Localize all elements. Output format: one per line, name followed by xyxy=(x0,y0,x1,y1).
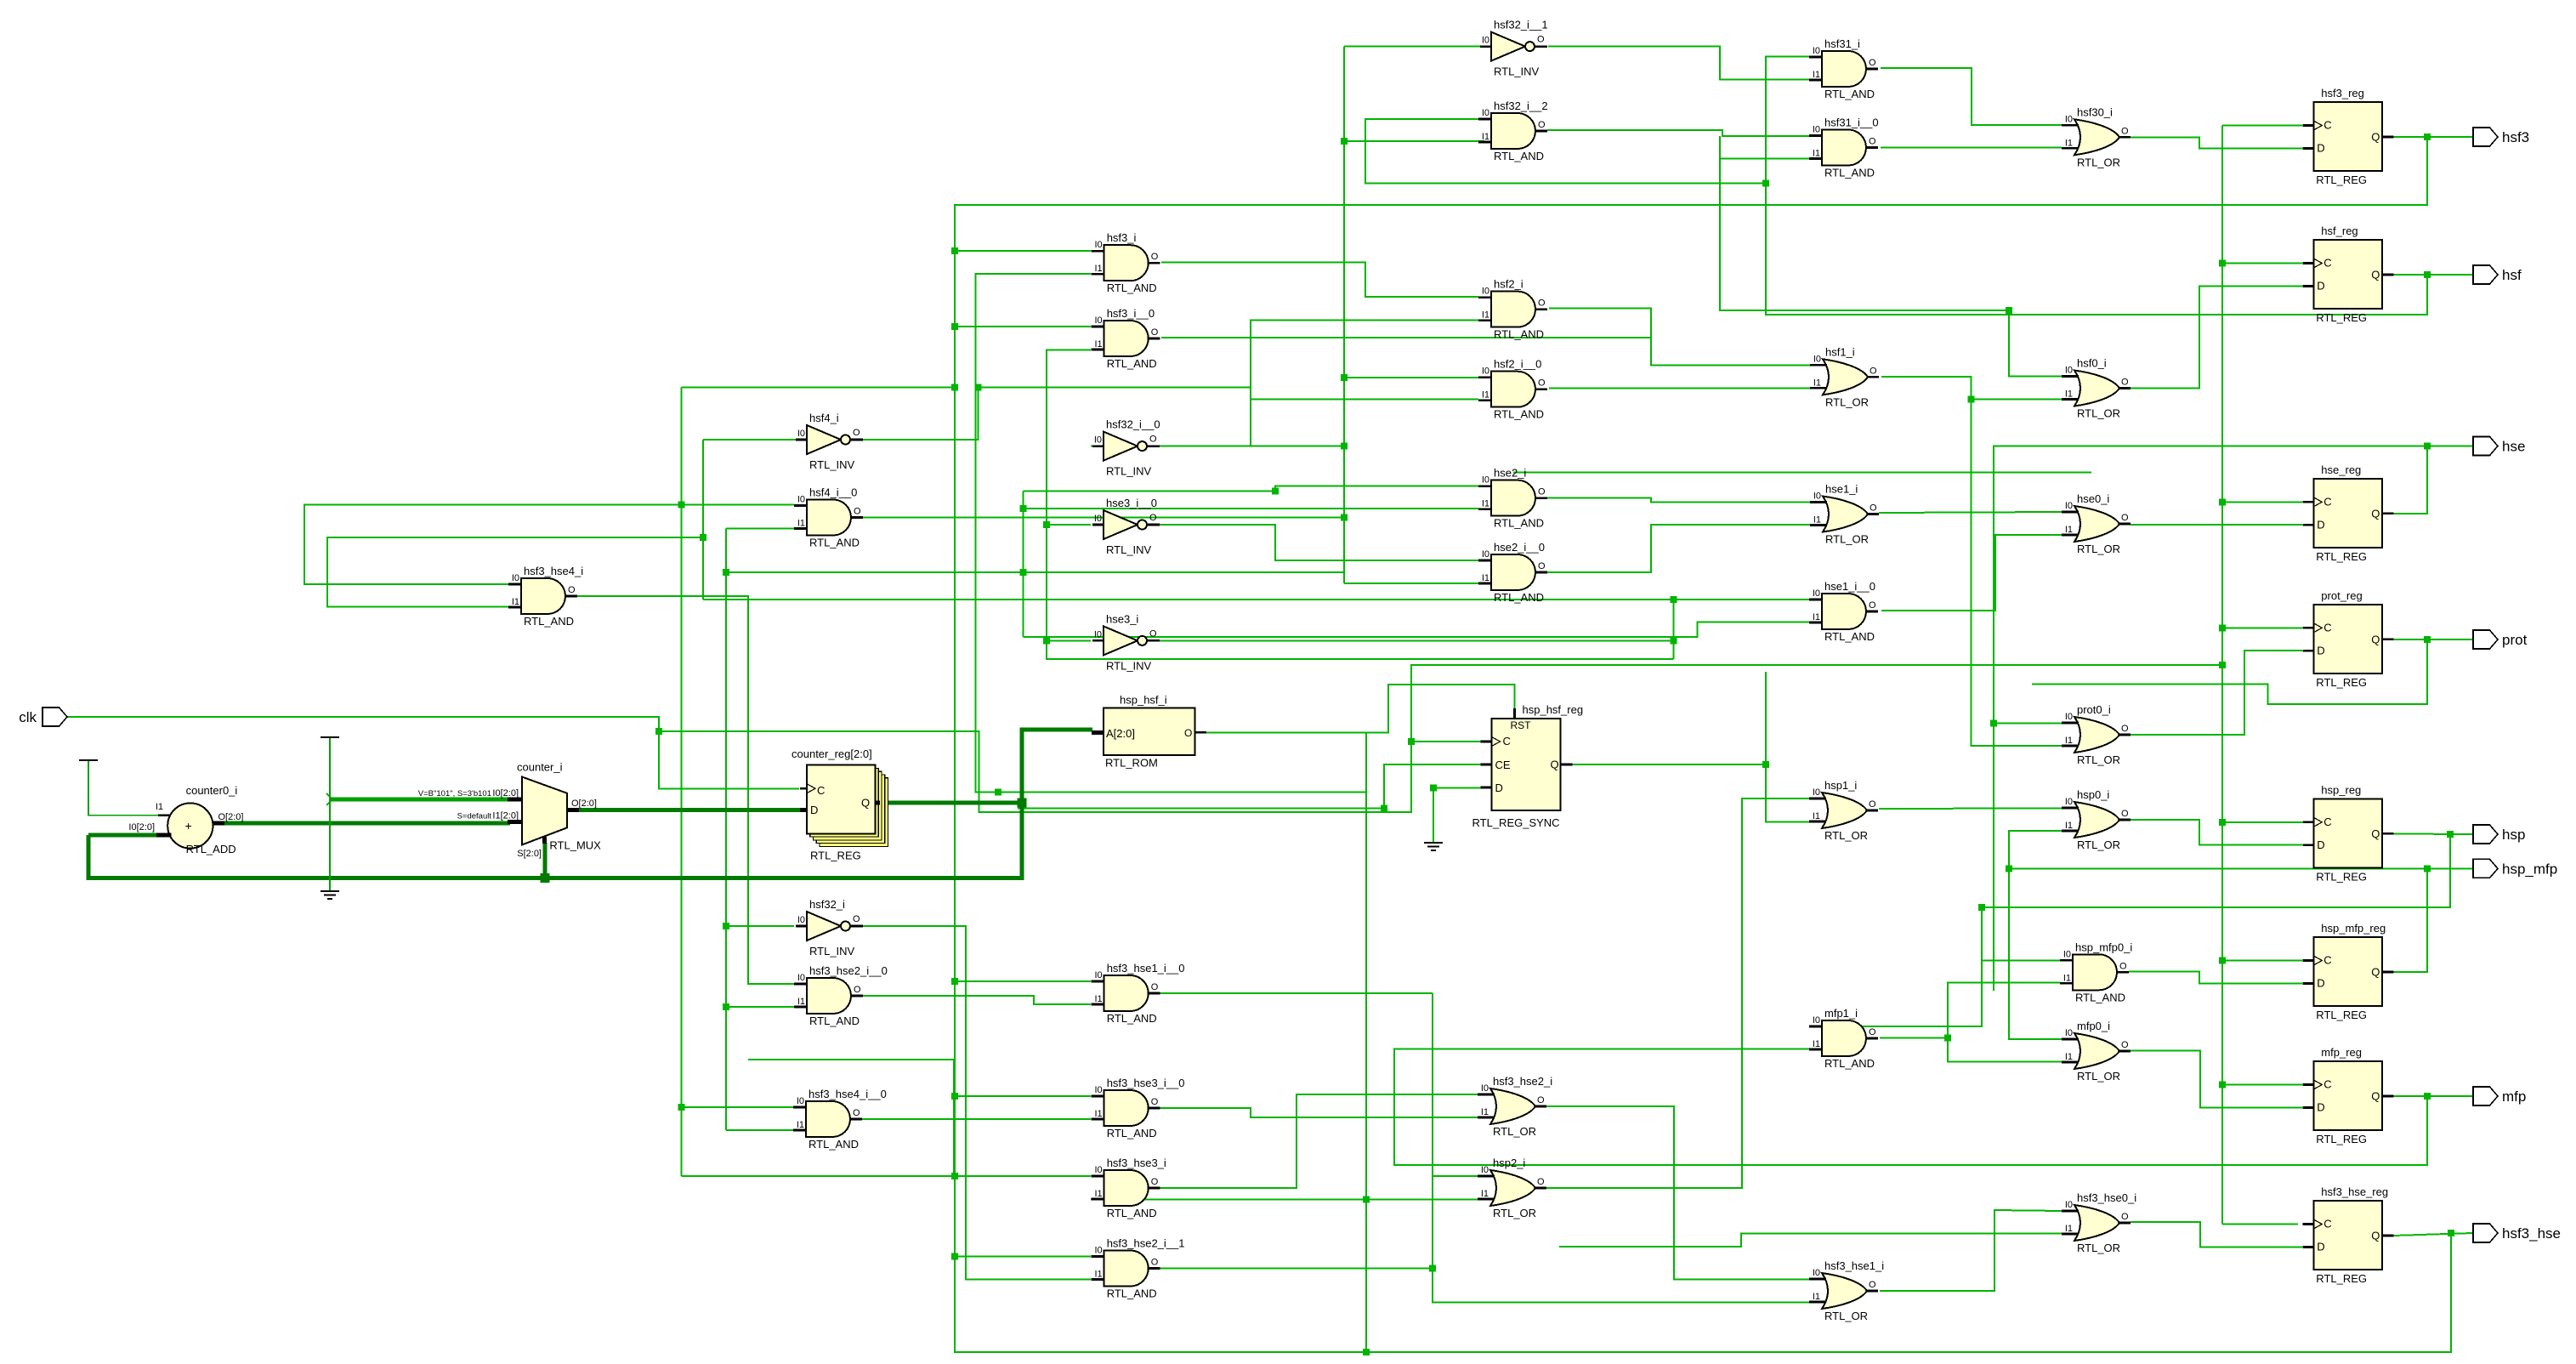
wire hse2 left vertical xyxy=(1023,491,1024,637)
svg-text:I0: I0 xyxy=(1813,125,1820,135)
svg-text:O: O xyxy=(1870,503,1877,514)
svg-text:counter_reg[2:0]: counter_reg[2:0] xyxy=(792,747,872,760)
svg-text:O: O xyxy=(1151,252,1159,262)
svg-text:D: D xyxy=(2317,838,2324,851)
svg-text:RTL_OR: RTL_OR xyxy=(2077,156,2120,168)
wire hsp0_i out to hsp_reg D xyxy=(2131,820,2302,845)
svg-text:CE: CE xyxy=(1495,759,1511,771)
or gate hse0_i xyxy=(2062,492,2131,555)
svg-text:Q: Q xyxy=(2371,507,2380,520)
svg-text:RTL_REG: RTL_REG xyxy=(2316,1272,2367,1285)
svg-text:O: O xyxy=(1869,600,1876,611)
wire hsp2_i I1 and hsf3_hse3_i I1 net xyxy=(1091,1199,1494,1201)
wire mfp0_i out to mfp_reg D xyxy=(2131,1051,2302,1108)
svg-text:RTL_AND: RTL_AND xyxy=(1494,591,1544,604)
svg-text:hsf3_hse3_i: hsf3_hse3_i xyxy=(1107,1157,1166,1169)
svg-text:hsf3_i: hsf3_i xyxy=(1107,231,1137,244)
wire hsf3 tap hsf3_hse3_i I0 xyxy=(955,1175,1091,1177)
svg-text:Q: Q xyxy=(2371,966,2380,979)
svg-text:hse0_i: hse0_i xyxy=(2077,492,2109,505)
wire hsf3_i out to hsf2_i I0 xyxy=(1161,262,1478,297)
svg-text:I0: I0 xyxy=(1095,1246,1103,1256)
svg-text:O: O xyxy=(2121,1040,2129,1050)
svg-text:I1: I1 xyxy=(2063,973,2071,983)
svg-text:RST: RST xyxy=(1511,719,1532,731)
svg-text:I0: I0 xyxy=(797,495,805,505)
wire hsf2_i__0 out to hsf1_i I1 xyxy=(1549,387,1810,389)
wire hsf2_i out xyxy=(1549,308,1651,338)
svg-text:RTL_REG: RTL_REG xyxy=(2316,676,2367,689)
port hsf3_hse xyxy=(2473,1224,2561,1242)
wire hsf3_hse0_i I1 feed xyxy=(1559,1234,2062,1247)
wire vertical x1607 xyxy=(1365,732,1367,1352)
wire hsf3 tap hsf3_i I0 xyxy=(955,250,1091,252)
svg-text:I1: I1 xyxy=(1482,132,1489,142)
svg-text:hsf4_i: hsf4_i xyxy=(809,412,839,424)
wire hsf3_reg Q to port hsf3 xyxy=(2393,136,2473,138)
svg-text:prot: prot xyxy=(2502,632,2528,648)
svg-text:O: O xyxy=(853,914,860,924)
bus mux O to counter_reg D xyxy=(579,808,800,812)
svg-text:I1: I1 xyxy=(1813,70,1820,80)
svg-text:O: O xyxy=(2121,126,2129,136)
svg-text:RTL_OR: RTL_OR xyxy=(2077,543,2120,555)
svg-text:RTL_OR: RTL_OR xyxy=(2077,838,2120,851)
svg-text:I1: I1 xyxy=(1095,339,1103,350)
svg-text:hsf3_i__0: hsf3_i__0 xyxy=(1107,307,1155,320)
svg-text:hsf32_i__1: hsf32_i__1 xyxy=(1494,19,1548,31)
svg-text:I0: I0 xyxy=(1482,108,1489,118)
svg-text:hsf4_i__0: hsf4_i__0 xyxy=(809,486,857,499)
svg-text:Q: Q xyxy=(2371,827,2380,840)
svg-text:I1: I1 xyxy=(1481,1189,1489,1199)
svg-text:RTL_INV: RTL_INV xyxy=(1106,543,1152,556)
svg-text:I1: I1 xyxy=(2065,138,2073,148)
svg-text:I0: I0 xyxy=(1095,315,1103,326)
or gate hsf3_hse0_i xyxy=(2062,1191,2136,1254)
svg-text:RTL_AND: RTL_AND xyxy=(1107,1287,1157,1300)
and gate hsf31_i__0 xyxy=(1809,117,1879,179)
svg-text:RTL_REG: RTL_REG xyxy=(2316,870,2367,883)
wire hsf3_hse3_i out to hsf3_hse2_i I0 xyxy=(1149,1094,1484,1188)
wire hsf4_i out to hsf2_i__0 I1 xyxy=(863,388,1478,440)
wire prot0_i out to prot_reg D xyxy=(2131,651,2302,735)
svg-text:hsf3_hse2_i__1: hsf3_hse2_i__1 xyxy=(1107,1237,1185,1250)
wire clk tap mfp_reg C xyxy=(2222,1084,2302,1086)
wire clk tap prot_reg C xyxy=(2222,628,2302,629)
svg-text:D: D xyxy=(1495,781,1503,794)
bus counter_reg Q xyxy=(880,801,1022,805)
svg-text:I1: I1 xyxy=(797,1120,804,1130)
svg-text:hsp_mfp_reg: hsp_mfp_reg xyxy=(2321,922,2386,935)
wire vertical B xyxy=(725,529,727,1131)
wire hsf3_hse3_i__0 out to hsf3_hse2_i I1 xyxy=(1149,1108,1484,1117)
and gate hse2_i__0 xyxy=(1478,541,1547,604)
svg-text:O: O xyxy=(568,585,576,595)
svg-text:O: O xyxy=(1538,487,1546,497)
svg-text:I0: I0 xyxy=(797,973,805,983)
wire hsf4_i I0 stub wire xyxy=(703,439,796,440)
svg-text:RTL_MUX: RTL_MUX xyxy=(549,838,601,851)
wire hsf3_hse1_i__0 out xyxy=(1149,992,1433,994)
svg-text:I1: I1 xyxy=(2065,736,2073,746)
port hsp_mfp xyxy=(2473,859,2557,878)
svg-text:RTL_REG: RTL_REG xyxy=(2316,1133,2367,1145)
svg-text:I0: I0 xyxy=(1481,1083,1489,1094)
bus mux S xyxy=(543,843,548,878)
wire hsp1_i out to hsp0_i I0 xyxy=(1879,807,2062,810)
ground symbol xyxy=(321,891,339,899)
svg-text:prot_reg: prot_reg xyxy=(2321,589,2362,602)
svg-text:C: C xyxy=(2324,119,2331,132)
svg-text:RTL_AND: RTL_AND xyxy=(809,537,860,549)
svg-text:RTL_AND: RTL_AND xyxy=(1494,408,1544,421)
svg-text:I0: I0 xyxy=(2065,501,2073,511)
wire hse2_i__0 I1 feed xyxy=(1344,583,1478,584)
svg-text:O: O xyxy=(1537,35,1545,45)
svg-text:I1: I1 xyxy=(1482,573,1489,583)
and gate hsf3_hse3_i__0 xyxy=(1092,1077,1185,1140)
svg-text:RTL_AND: RTL_AND xyxy=(1824,630,1875,643)
and gate hsf3_hse4_i xyxy=(508,565,583,628)
svg-text:I1: I1 xyxy=(1482,310,1489,321)
svg-text:RTL_OR: RTL_OR xyxy=(1825,533,1869,546)
svg-text:hsf31_i__0: hsf31_i__0 xyxy=(1824,117,1879,129)
port mfp xyxy=(2473,1087,2526,1105)
wire hsf32_i__2 out to hsf31_i__0 I0 xyxy=(1547,130,1812,136)
const tbar top xyxy=(321,736,339,738)
wire hsf0_i out to hsf_reg D xyxy=(2131,287,2302,389)
rom hsp_hsf_i xyxy=(1092,693,1206,769)
register hsp_mfp_reg xyxy=(2302,922,2393,1021)
svg-text:I1: I1 xyxy=(156,802,163,812)
svg-text:D: D xyxy=(2317,977,2324,990)
svg-text:RTL_INV: RTL_INV xyxy=(1494,65,1540,78)
svg-text:hse2_i__0: hse2_i__0 xyxy=(1494,541,1545,554)
svg-text:I0: I0 xyxy=(2065,1028,2073,1038)
svg-text:I1: I1 xyxy=(1813,515,1821,526)
svg-text:O: O xyxy=(1151,982,1159,992)
const1 tbar for adder I1 xyxy=(79,759,98,761)
svg-text:prot0_i: prot0_i xyxy=(2077,703,2111,716)
and gate hsf3_hse3_i xyxy=(1092,1157,1166,1219)
svg-text:I0[2:0]: I0[2:0] xyxy=(128,822,155,833)
register hsp_reg xyxy=(2302,783,2393,883)
svg-text:RTL_AND: RTL_AND xyxy=(1824,88,1875,100)
wire hsp_hsf ROM out to RST xyxy=(1206,685,1515,733)
svg-text:I1: I1 xyxy=(1481,1107,1489,1117)
svg-text:RTL_OR: RTL_OR xyxy=(1825,395,1869,408)
svg-text:I0: I0 xyxy=(797,429,805,439)
wire hsf2_i__0 I0 feed xyxy=(1344,377,1478,378)
svg-text:O: O xyxy=(1869,799,1876,810)
svg-text:O: O xyxy=(854,507,861,517)
svg-text:+: + xyxy=(185,819,192,833)
or gate hsf0_i xyxy=(2062,357,2131,420)
bus adder O to mux I1 xyxy=(224,821,510,826)
wire hsf3 tap hsf1_i area xyxy=(682,387,955,389)
svg-text:I1: I1 xyxy=(2065,1224,2073,1234)
wire hsf3_hse_reg Q to port hsf3_hse xyxy=(2393,1233,2473,1236)
wire prot_reg Q to port prot xyxy=(2393,639,2473,640)
svg-text:hsf3_hse_reg: hsf3_hse_reg xyxy=(2321,1185,2388,1198)
inverter hsf4_i xyxy=(796,412,863,471)
svg-text:O: O xyxy=(1869,137,1876,147)
and gate mfp1_i xyxy=(1809,1007,1878,1070)
svg-text:hsp_mfp0_i: hsp_mfp0_i xyxy=(2075,941,2132,953)
svg-text:I0: I0 xyxy=(1482,549,1489,560)
wire hse1_i__0 I1 feed xyxy=(1024,622,1811,637)
bus adder I0 stub wire xyxy=(88,833,158,838)
svg-text:Q: Q xyxy=(2371,131,2380,144)
svg-text:O: O xyxy=(2121,724,2129,734)
svg-text:O: O xyxy=(1151,1258,1159,1268)
svg-text:C: C xyxy=(2324,257,2331,270)
svg-text:RTL_REG: RTL_REG xyxy=(2316,311,2367,324)
wire hsf32 tap hsf32_i__2 I1 xyxy=(1344,140,1484,142)
or gate hsp1_i xyxy=(1809,779,1878,842)
svg-text:hsf3: hsf3 xyxy=(2502,129,2529,145)
const wire to mux I0 xyxy=(330,798,510,802)
inverter hsf32_i__1 xyxy=(1480,19,1548,78)
svg-text:O: O xyxy=(853,1108,860,1118)
or gate hsf30_i xyxy=(2062,105,2131,168)
svg-text:hsf: hsf xyxy=(2502,267,2522,283)
svg-text:RTL_AND: RTL_AND xyxy=(2075,991,2125,1003)
svg-text:hse2_i: hse2_i xyxy=(1494,467,1526,480)
svg-text:I0: I0 xyxy=(1813,787,1820,798)
wire hsp0_i I1 feed xyxy=(2009,831,2062,868)
svg-text:O: O xyxy=(1184,727,1192,739)
svg-text:hsf0_i: hsf0_i xyxy=(2077,357,2107,370)
and gate hse2_i xyxy=(1478,467,1547,530)
and gate hsf3_hse4_i__0 xyxy=(793,1088,887,1151)
wire hsf32 long vertical xyxy=(1343,47,1345,583)
svg-text:I0: I0 xyxy=(1481,1165,1489,1175)
svg-text:I0: I0 xyxy=(1813,354,1821,364)
svg-text:I1: I1 xyxy=(1095,994,1103,1004)
svg-text:O[2:0]: O[2:0] xyxy=(218,812,244,822)
svg-text:I0[2:0]: I0[2:0] xyxy=(492,788,519,799)
wire hsf3_i I1 feed vertical xyxy=(976,274,1367,793)
svg-text:I0: I0 xyxy=(2065,712,2073,722)
svg-text:I1: I1 xyxy=(2065,525,2073,535)
const connector arrow xyxy=(326,793,332,805)
wire hsf3 feedback xyxy=(955,137,2451,1352)
port hse xyxy=(2473,437,2525,456)
wire hsp_mfp0_i out to hsp_mfp_reg D xyxy=(2129,972,2302,984)
svg-text:RTL_OR: RTL_OR xyxy=(1824,829,1868,842)
svg-text:I0: I0 xyxy=(2063,949,2071,959)
wire hse1_i__0 I0 long feed xyxy=(703,599,1812,600)
svg-text:I1: I1 xyxy=(797,519,805,529)
svg-text:hse: hse xyxy=(2502,439,2525,455)
svg-text:RTL_AND: RTL_AND xyxy=(1107,1207,1157,1219)
wire hsf4 vertical xyxy=(702,440,704,600)
svg-text:D: D xyxy=(2317,1101,2324,1114)
wire hsf3_hse1_i__0 I1 feed xyxy=(863,996,1091,1004)
svg-text:hsp2_i: hsp2_i xyxy=(1493,1157,1525,1169)
svg-text:RTL_AND: RTL_AND xyxy=(1494,328,1544,341)
svg-text:O: O xyxy=(1149,513,1157,523)
svg-text:I0: I0 xyxy=(1094,435,1102,446)
svg-text:I0: I0 xyxy=(1094,629,1102,639)
svg-text:RTL_OR: RTL_OR xyxy=(2077,1070,2120,1083)
svg-text:O: O xyxy=(1538,378,1546,389)
wire hsf3_hse2_i__1 out xyxy=(1149,1268,1433,1270)
svg-text:RTL_ROM: RTL_ROM xyxy=(1105,756,1158,769)
wire mfp_reg Q to port mfp xyxy=(2393,1095,2473,1097)
wire clk from port xyxy=(65,717,799,789)
svg-text:D: D xyxy=(810,804,818,816)
svg-text:mfp_reg: mfp_reg xyxy=(2321,1046,2362,1059)
wire hsf tap hsf32_i__2 I0 xyxy=(1365,119,1766,184)
wire clk tap hsp_reg C xyxy=(2222,821,2302,823)
wire hse0_i out to hse_reg D xyxy=(2131,524,2302,526)
svg-text:C: C xyxy=(2324,954,2331,967)
wire hse2_i I1 feed xyxy=(1024,508,1479,509)
wire clk tap hse_reg C xyxy=(2222,502,2302,503)
wire hsp2_i I0 feed xyxy=(1433,993,1494,1176)
svg-text:hsf2_i__0: hsf2_i__0 xyxy=(1494,358,1541,371)
wire vertical A bottom to x1122 xyxy=(682,1060,954,1176)
svg-text:I1: I1 xyxy=(1482,390,1489,401)
wire vertical B end hsf3_hse4_i__0 I1 xyxy=(726,1129,794,1131)
wire mfp1_i out to mfp0_i I1 xyxy=(1880,1038,2062,1062)
and gate hsf31_i xyxy=(1809,37,1878,100)
svg-text:D: D xyxy=(2317,280,2324,293)
svg-text:I1: I1 xyxy=(2065,389,2073,400)
wire clk tap hsf3_reg C xyxy=(2222,124,2302,126)
wire hsf3_hse2_i out to hsf3_hse1_i I0 xyxy=(1539,1106,1810,1280)
svg-text:hse_reg: hse_reg xyxy=(2321,463,2361,476)
svg-text:O: O xyxy=(1870,366,1877,376)
svg-text:C: C xyxy=(2324,495,2331,508)
wire clk tap hsf_reg C xyxy=(2222,263,2302,264)
const vertical xyxy=(329,738,331,890)
inverter hsf32_i__0 xyxy=(1092,418,1160,478)
svg-text:C: C xyxy=(2324,1218,2331,1230)
svg-text:O: O xyxy=(1869,1280,1876,1290)
wire vertical A xyxy=(681,388,683,1177)
wire hsp_mfp_reg Q to port hsp_mfp xyxy=(2393,868,2473,972)
svg-text:counter_i: counter_i xyxy=(517,761,563,774)
wire hsf30_i out to hsf3_reg D xyxy=(2131,138,2302,149)
register hse_reg xyxy=(2302,463,2393,563)
svg-text:RTL_OR: RTL_OR xyxy=(2077,1242,2120,1254)
port hsf xyxy=(2473,265,2522,284)
register hsf_reg xyxy=(2302,224,2393,324)
svg-text:hsf3_hse4_i__0: hsf3_hse4_i__0 xyxy=(809,1088,887,1100)
svg-text:I1: I1 xyxy=(512,597,519,607)
svg-text:O: O xyxy=(1538,561,1546,571)
svg-text:hsf2_i: hsf2_i xyxy=(1494,278,1523,291)
wire parallel 950 line xyxy=(1018,807,1384,809)
svg-text:RTL_OR: RTL_OR xyxy=(1824,1310,1868,1322)
wire hsf31_i out to hsf30_i I0 xyxy=(1881,68,2062,125)
svg-text:RTL_AND: RTL_AND xyxy=(1824,1057,1875,1070)
svg-text:RTL_OR: RTL_OR xyxy=(1493,1207,1536,1219)
svg-text:C: C xyxy=(2324,1078,2331,1091)
svg-text:I0: I0 xyxy=(512,573,519,583)
wire hsf3_hse4_i__0 out to hsf3_hse3_i__0 I1 xyxy=(862,1118,1091,1120)
wire hsp2_i out to hsp1_i I0 xyxy=(1539,799,1810,1188)
svg-text:V=B"101", S=3'b101: V=B"101", S=3'b101 xyxy=(418,789,491,799)
and gate hsf3_hse2_i__1 xyxy=(1092,1237,1185,1300)
svg-text:O[2:0]: O[2:0] xyxy=(571,799,597,809)
wire prot feedback xyxy=(2032,639,2427,704)
wire hse3_i out xyxy=(1160,639,1674,641)
svg-text:D: D xyxy=(2317,644,2324,656)
svg-text:hsp0_i: hsp0_i xyxy=(2077,788,2109,801)
register mfp_reg xyxy=(2302,1046,2393,1145)
svg-text:I1[2:0]: I1[2:0] xyxy=(492,811,519,821)
wire hse3_i__0 I0 feed xyxy=(1047,524,1091,526)
svg-text:I1: I1 xyxy=(1095,1109,1103,1119)
wire hsf32_i__1 out to hsf31_i I1 xyxy=(1548,47,1810,80)
and gate hsf4_i__0 xyxy=(794,486,863,549)
wire hsf3 tap hsf3_hse3_i__0 I0 xyxy=(955,1095,1091,1097)
svg-text:hsf3_hse3_i__0: hsf3_hse3_i__0 xyxy=(1107,1077,1185,1089)
svg-text:I0: I0 xyxy=(2065,114,2073,124)
inverter hsf32_i xyxy=(796,898,863,958)
svg-text:hse1_i__0: hse1_i__0 xyxy=(1824,580,1875,593)
svg-text:O: O xyxy=(2119,961,2127,971)
wire hsf3_i__0 I1 feed via long vertical xyxy=(1047,350,1674,659)
svg-text:D: D xyxy=(2317,518,2324,531)
svg-text:C: C xyxy=(817,784,825,797)
svg-text:I1: I1 xyxy=(1095,264,1103,274)
wire clk tap hsp_mfp_reg C xyxy=(2222,960,2302,962)
wire vertical B tap hsf32_i I0 xyxy=(726,925,794,927)
svg-text:hsf1_i: hsf1_i xyxy=(1825,345,1855,358)
register hsf3_hse_reg xyxy=(2302,1185,2393,1285)
svg-text:hsf3_hse2_i: hsf3_hse2_i xyxy=(1493,1075,1552,1088)
svg-text:I0: I0 xyxy=(1482,367,1489,377)
port prot xyxy=(2473,630,2528,649)
svg-text:RTL_ADD: RTL_ADD xyxy=(186,843,236,855)
svg-text:I0: I0 xyxy=(1095,970,1103,980)
svg-text:RTL_AND: RTL_AND xyxy=(809,1138,859,1151)
svg-text:hsf32_i__2: hsf32_i__2 xyxy=(1494,99,1548,112)
wire vertical A tap hsf3_hse4_i__0 I0 xyxy=(682,1106,794,1108)
register hsp_hsf_reg xyxy=(1472,703,1584,829)
svg-text:O: O xyxy=(1869,58,1876,68)
svg-text:O: O xyxy=(854,985,861,995)
svg-text:O: O xyxy=(1149,435,1157,445)
wire hsf3_hse0_i out to hsf3_hse_reg D xyxy=(2131,1222,2302,1247)
svg-text:RTL_OR: RTL_OR xyxy=(1493,1125,1536,1138)
wire hsp_hsf_reg D ground xyxy=(1433,787,1481,842)
svg-text:I1: I1 xyxy=(1813,811,1820,821)
svg-text:C: C xyxy=(1503,735,1511,747)
svg-text:RTL_REG: RTL_REG xyxy=(2316,550,2367,563)
mux counter_i xyxy=(418,761,601,860)
svg-text:Q: Q xyxy=(1551,759,1559,771)
svg-text:I0: I0 xyxy=(1095,240,1103,250)
or gate hsf3_hse2_i xyxy=(1478,1075,1552,1138)
svg-text:O: O xyxy=(1537,1095,1545,1105)
or gate hse1_i xyxy=(1810,483,1879,546)
svg-text:I0: I0 xyxy=(1813,46,1820,56)
svg-text:Q: Q xyxy=(2371,633,2380,645)
svg-text:O: O xyxy=(1149,628,1157,639)
or gate hsp2_i xyxy=(1478,1157,1546,1219)
bus counter feedback trunk xyxy=(88,730,1092,878)
wire hsf4_i__0 out xyxy=(852,517,1344,519)
inverter hse3_i xyxy=(1092,612,1160,672)
wire hsf4_i__0 I1 feed xyxy=(726,528,796,530)
